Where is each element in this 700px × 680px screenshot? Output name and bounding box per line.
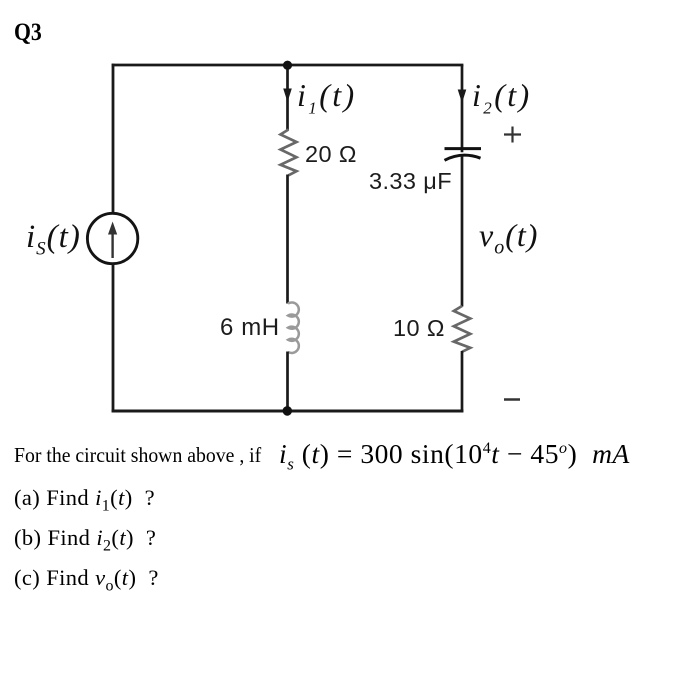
wire: left vertical upper (to current source) xyxy=(112,64,115,214)
wire: top horizontal xyxy=(112,64,464,67)
problem text line xyxy=(14,443,261,468)
question (a) xyxy=(14,485,155,516)
math expression is(t)=300sin(10^4 t - 45deg) mA xyxy=(279,438,630,475)
wire: bottom horizontal xyxy=(112,410,464,413)
wire: middle branch mid segment xyxy=(286,175,289,304)
Q3 title xyxy=(14,19,42,47)
question (c) xyxy=(14,565,159,596)
value 20 ohm xyxy=(305,141,357,168)
wire: right branch bottom segment xyxy=(461,351,464,412)
plus sign (polarity +) xyxy=(504,133,521,135)
resistor 10 ohm (zigzag) xyxy=(454,306,471,352)
value 6 mH xyxy=(220,314,280,342)
value 10 ohm xyxy=(393,315,445,342)
node dot top (junction) xyxy=(283,61,292,70)
label vo(t) xyxy=(479,217,538,259)
current source is(t) circle xyxy=(87,213,137,263)
question (b) xyxy=(14,525,156,556)
arrow i2 (down) on right branch xyxy=(458,90,467,104)
capacitor 3.33uF bottom curved plate xyxy=(445,155,481,160)
minus sign (polarity -) xyxy=(504,398,520,401)
label i2(t) xyxy=(472,77,532,118)
label is(t) xyxy=(26,219,81,261)
current source arrow (pointing up) xyxy=(111,233,113,258)
wire: right branch middle segment xyxy=(461,156,464,307)
capacitor 3.33uF top plate xyxy=(445,147,482,150)
arrow i1 (down) on middle branch xyxy=(283,89,292,103)
label i1(t) xyxy=(297,77,357,118)
node dot bottom (junction) xyxy=(283,406,293,416)
resistor 20 ohm (zigzag) xyxy=(281,130,297,176)
wire: right branch top segment xyxy=(461,65,464,152)
inductor 6 mH (coil) xyxy=(288,302,299,353)
wire: middle branch top segment xyxy=(286,65,289,130)
wire: left vertical lower xyxy=(112,264,115,413)
value 3.33 uF xyxy=(369,168,452,195)
wire: middle branch bottom segment xyxy=(286,352,289,412)
